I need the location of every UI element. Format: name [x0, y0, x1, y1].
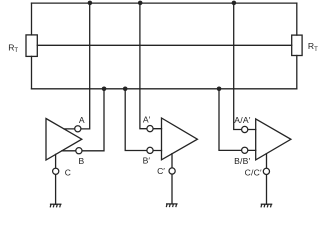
- svg-text:A: A: [79, 115, 85, 125]
- wire: gate3 terminal B/B', drop from bottom bus into triangle input: [219, 89, 256, 151]
- ground symbol gate3: [261, 204, 273, 207]
- gate 2 triangle (receiver): [162, 118, 198, 160]
- terminal circle C' (gate2): [169, 168, 175, 174]
- wire: right vertical, top bus to resistor: [296, 3, 298, 35]
- wire: gate1 C lead, triangle edge down to ground: [55, 154, 57, 204]
- wire: gate2 terminal A', drop from top bus into triangle input: [140, 3, 162, 129]
- terminal circle A' (gate2): [147, 126, 153, 132]
- resistor RT right (body): [292, 35, 302, 55]
- wire: gate2 terminal B', drop from bottom bus into triangle input: [125, 89, 161, 151]
- wire: gate3 C/C' lead, triangle edge down to ground: [266, 154, 268, 205]
- gate 3 triangle (transceiver): [256, 119, 291, 160]
- wire: gate3 terminal A/A', drop from top bus into triangle input: [234, 3, 256, 129]
- svg-text:A/A′: A/A′: [234, 115, 251, 125]
- junction dot: bottom bus / gate2 B': [123, 87, 128, 92]
- terminal circle C/C' (gate3): [263, 168, 269, 174]
- ground symbol gate2: [166, 204, 178, 207]
- terminal circle C (gate1): [53, 168, 59, 174]
- junction dot: bottom bus / gate1 B: [102, 87, 107, 92]
- wire: gate1 terminal B, drop from bottom bus and stub to triangle edge: [62, 89, 104, 151]
- svg-text:C/C′: C/C′: [245, 167, 262, 177]
- svg-text:A′: A′: [143, 115, 151, 125]
- junction dot: top bus / gate3 A/A': [232, 1, 237, 6]
- wire: bottom bus line: [32, 88, 297, 90]
- terminal circle B' (gate2): [147, 147, 153, 153]
- junction dot: bottom bus / gate3 B/B': [217, 87, 222, 92]
- wire: middle line between the two terminators: [37, 44, 291, 46]
- junction dot: top bus / gate1 A: [88, 1, 93, 6]
- resistor RT left (body): [26, 35, 37, 57]
- svg-text:RT: RT: [8, 42, 18, 54]
- svg-text:B: B: [79, 156, 85, 166]
- gate 1 triangle (driver): [46, 119, 82, 161]
- wire: gate1 terminal A, drop from top bus and stub to triangle edge: [64, 3, 90, 129]
- wire: top bus line: [32, 2, 297, 4]
- svg-text:B/B′: B/B′: [234, 156, 251, 166]
- ground symbol gate1: [50, 204, 62, 207]
- svg-text:C: C: [65, 167, 71, 177]
- terminal circle B (gate1): [76, 148, 82, 154]
- terminal circle B/B' (gate3): [242, 147, 248, 153]
- terminal circle A (gate1): [75, 126, 81, 132]
- junction dot: top bus / gate2 A': [138, 1, 143, 6]
- terminal circle A/A' (gate3): [242, 126, 248, 132]
- svg-text:C′: C′: [157, 166, 165, 176]
- svg-text:RT: RT: [308, 41, 318, 53]
- wire: left vertical, resistor to bottom bus: [31, 56, 33, 88]
- svg-text:B′: B′: [143, 156, 151, 166]
- wire: gate2 C' lead, triangle edge down to ground: [171, 154, 173, 204]
- wire: right vertical, resistor to bottom bus: [296, 56, 298, 89]
- wire: left vertical, top bus to resistor: [31, 3, 33, 35]
